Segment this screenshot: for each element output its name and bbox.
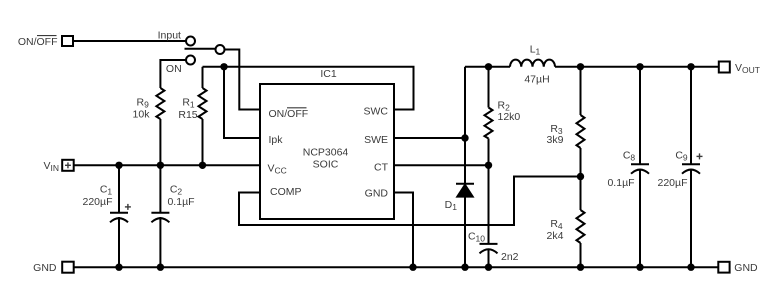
svg-text:SWC: SWC [364,106,389,118]
wire C2 leads [159,165,161,213]
terminal GND right square [718,262,729,273]
svg-text:ON/OFF: ON/OFF [18,36,58,48]
junction dot GND rail C9 [687,264,694,271]
wire IC pin SWE to switch node [394,137,465,139]
inductor L1 [510,60,555,67]
junction dot GND rail R4 [577,264,584,271]
svg-text:IC1: IC1 [320,68,337,80]
svg-text:D1: D1 [445,199,458,212]
wire node A: R1 top / Ipk / SWC net [203,67,414,110]
junction dot GND rail C1 [115,264,122,271]
wire GND rail [74,266,718,268]
label pin ON/OFF [269,108,309,120]
svg-text:47µH: 47µH [524,74,549,86]
resistor R9 [156,88,164,119]
junction dot top rail C9 [687,63,694,70]
node A junction dot [220,63,227,70]
svg-text:220µF: 220µF [658,177,688,189]
junction dot VIN rail C2/R9 [157,162,164,169]
svg-text:R1: R1 [182,97,195,110]
svg-text:R15: R15 [178,109,197,121]
capacitor C2 plates [151,213,169,223]
junction dot VIN rail C1 [115,162,122,169]
resistor R1 [199,88,207,119]
resistor R2 [485,108,493,139]
switch S1 ON contact [186,56,195,65]
plus sign C1 [125,204,131,210]
junction dot GND rail D1 [461,264,468,271]
terminal GND left square [62,262,73,273]
resistor R3 [577,115,585,148]
capacitor C1 plates [110,213,128,223]
svg-text:VOUT: VOUT [735,62,760,75]
svg-text:0.1µF: 0.1µF [607,177,634,189]
svg-text:GND: GND [365,188,389,200]
junction dot top rail C8 [636,63,643,70]
label ON/OFF terminal [18,36,58,48]
svg-text:VCC: VCC [268,163,287,176]
wire R4 leads [580,177,582,211]
capacitor C9 plates [682,164,700,174]
wire R9 bottom lead [159,119,161,165]
svg-text:C8: C8 [623,149,636,162]
svg-text:SOIC: SOIC [313,159,339,171]
svg-text:ON/OFF: ON/OFF [269,108,309,120]
diode D1 [456,184,474,197]
switch S1 pole contact [216,45,225,54]
svg-text:Ipk: Ipk [269,134,284,146]
svg-text:Input: Input [158,30,181,42]
svg-text:C10: C10 [468,231,485,244]
junction dot GND rail C8 [636,264,643,271]
terminal VOUT square [719,62,730,73]
svg-text:10k: 10k [133,109,151,121]
wire R1 bottom lead [202,119,204,165]
plus sign C9 [697,153,703,159]
junction dot VIN rail R1 [199,162,206,169]
capacitor C10 plates [480,244,498,254]
svg-text:2n2: 2n2 [501,251,519,263]
wire VIN rail [74,164,260,166]
wire switch node rail to L1 [465,66,510,68]
svg-text:R9: R9 [137,97,150,110]
wire node A to IC pin Ipk [224,67,260,138]
junction dot GND rail C10 [485,264,492,271]
svg-text:C9: C9 [675,149,688,162]
svg-text:GND: GND [734,262,758,274]
svg-text:220µF: 220µF [83,196,113,208]
plus sign VIN terminal [65,162,71,168]
svg-text:VIN: VIN [43,160,59,173]
svg-text:NCP3064: NCP3064 [303,147,349,159]
svg-text:C2: C2 [170,184,183,197]
wire switch pole to IC pin ON/OFF [225,50,261,110]
capacitor C8 plates [631,164,649,174]
wire ON contact to R9 [160,60,186,88]
svg-text:GND: GND [33,262,57,274]
wire C1 leads [118,165,120,213]
svg-text:3k9: 3k9 [547,134,564,146]
svg-text:2k4: 2k4 [547,230,564,242]
junction dot CT / R2 / C10 [485,162,492,169]
svg-text:SWE: SWE [364,134,388,146]
switch S1 Input contact [186,37,195,46]
svg-text:C1: C1 [100,184,113,197]
junction dot GND rail IC GND [409,264,416,271]
svg-text:CT: CT [374,162,389,174]
wire IC pin GND to ground rail [394,193,413,268]
svg-text:12k0: 12k0 [498,111,521,123]
resistor R4 [577,210,585,243]
wire ON/OFF terminal to switch Input contact [74,40,187,42]
wire R1 top lead [202,67,204,88]
terminal ON/OFF square [62,36,73,46]
wire C9 leads [690,67,692,164]
wire C10 leads [488,165,490,244]
wire IC pin COMP to feedback node [239,177,581,226]
junction dot top rail R2 [485,63,492,70]
svg-text:COMP: COMP [270,186,302,198]
wire L1 to VOUT terminal [555,66,719,68]
switch S1 blade [185,48,216,50]
junction dot top rail R3/L1 [577,63,584,70]
op-amp IC1 box outline [260,84,394,219]
junction dot feedback node R3/R4/COMP [577,173,584,180]
wire switch node column / D1 leads [464,67,466,184]
wire IC pin CT to R2/C10 node [394,164,489,166]
wire R2 leads [488,67,490,108]
wire R3 leads [580,67,582,115]
terminal VIN square [62,160,73,171]
wire C8 leads [639,67,641,164]
svg-text:L1: L1 [530,43,541,56]
svg-text:ON: ON [166,63,182,75]
svg-text:0.1µF: 0.1µF [167,196,194,208]
junction dot GND rail C2 [157,264,164,271]
junction dot SWE / D1 [461,134,468,141]
